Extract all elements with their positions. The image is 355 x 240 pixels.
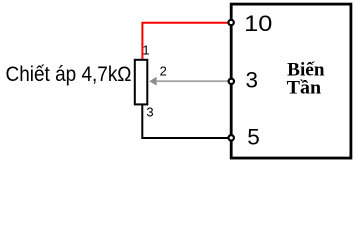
wire: gray wiper lead, terminal 3 to pin 2 [156,80,228,82]
svg-text:10: 10 [244,11,272,36]
svg-text:3: 3 [146,105,153,120]
inverter box (Biến Tần) [231,4,351,158]
svg-text:Chiết áp 4,7kΩ: Chiết áp 4,7kΩ [6,63,132,86]
terminal 10 [228,20,233,25]
arrowhead on wiper at pin 2 [149,77,156,86]
svg-text:2: 2 [160,63,167,78]
terminal 3 [229,79,234,84]
svg-text:3: 3 [246,68,259,93]
terminal 5 [229,135,234,140]
svg-text:5: 5 [247,125,260,150]
wire: black, pot pin 3 to terminal 5 [142,105,228,139]
svg-text:Tần: Tần [287,79,322,99]
potentiometer body (4,7kΩ) [135,60,148,105]
svg-text:Biến: Biến [287,61,325,81]
wire: red, pot pin 1 to terminal 10 [142,23,227,60]
svg-text:1: 1 [142,43,149,58]
